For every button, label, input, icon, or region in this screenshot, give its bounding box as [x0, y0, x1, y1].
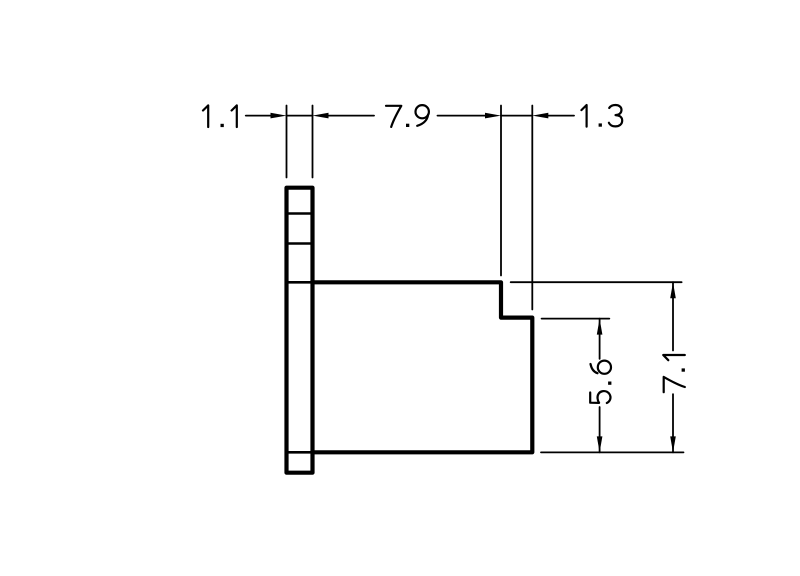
flange internal line 4 (body bottom continuation) [287, 451, 313, 454]
flange internal line 2 [287, 242, 313, 245]
text 7.1 (rotated) [663, 355, 685, 392]
dimension 7.9 line left part [327, 115, 374, 117]
text 1.1 [203, 105, 237, 127]
dimension 1.1 leader line [246, 115, 272, 117]
text 5.6 (rotated) [590, 361, 611, 403]
flange outline (left mounting plate) [287, 188, 313, 473]
flange internal line 3 (body top continuation) [287, 281, 313, 284]
dimension 7.1 line lower segment [672, 394, 674, 452]
flange internal line 1 [287, 212, 313, 215]
dimension 7.9 line right part [438, 115, 487, 117]
extension line at x=532.3 (body right) [531, 106, 533, 310]
extension line at y=282.2 (body top, for 7.1) [511, 281, 682, 283]
arrow up at y=318.6 [597, 319, 603, 335]
extension line at x=501 (step corner) [500, 106, 502, 276]
extension line at y=452.4 (body bottom) [541, 451, 684, 453]
arrow up at y=282.2 [670, 282, 676, 298]
arrow right at x=286.5 [271, 113, 287, 119]
arrow right at x=501 [485, 113, 501, 119]
extension line at y=318.6 (step, for 5.6) [542, 318, 610, 320]
dimension 5.6 line upper segment [599, 319, 601, 359]
extension line at x=286.5 (flange left) [286, 106, 288, 178]
body outline (stepped block) [313, 282, 533, 452]
extension line at x=312.5 (flange right) [312, 106, 314, 178]
arrow left at x=312.5 [313, 113, 329, 119]
dimension 1.3 leader line [547, 115, 574, 117]
dimension line segment 286.5-312.5 [287, 115, 313, 117]
dimension line segment 501-532.3 [501, 115, 532, 117]
arrow down at y=452.4 (7.1) [670, 436, 676, 452]
text 7.9 [386, 105, 429, 127]
dimension 5.6 line lower segment [599, 407, 601, 452]
arrow left at x=532.3 [532, 113, 548, 119]
text 1.3 [581, 105, 622, 127]
dimension 7.1 line upper segment [672, 282, 674, 350]
arrow down at y=452.4 (5.6) [597, 436, 603, 452]
